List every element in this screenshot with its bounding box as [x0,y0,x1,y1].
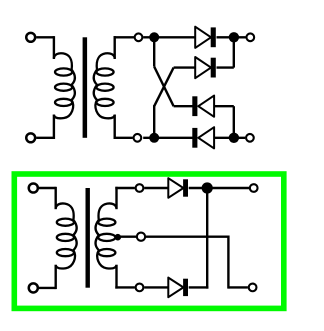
terminal J2 (primary bottom, top circuit) [26,133,35,142]
wire to output- terminal [228,286,248,288]
wire primary coil bottom corner [55,265,57,289]
wire D1 to output+ [217,36,246,38]
wire secondary bottom corner [115,265,117,289]
transformer T1 primary winding [54,53,75,118]
wire corner to J4 [39,287,56,289]
wire corner to J2 [36,137,54,139]
wire center tap down [227,236,229,289]
terminal output+ (top circuit) [246,33,254,41]
transformer T2 core [86,188,90,288]
wire J3 to corner [39,187,56,189]
diode D6 [168,278,188,298]
terminal J1 (primary top, top circuit) [26,33,35,42]
wire secondary bottom to circle [114,137,133,139]
wire center tap run right [146,235,229,237]
terminal secondary top (open circle) [135,33,143,41]
terminal output- (top circuit) [246,134,254,142]
terminal J3 (primary top, bottom circuit) [29,183,38,192]
center tap node [115,234,122,241]
terminal secondary bottom (bottom circuit) [136,284,144,292]
wire crossover diagonal B [154,68,173,107]
wire D5 to output+ [189,187,249,189]
wire to diode D2 [174,66,196,68]
node D (junction dot bottom-right) [229,133,239,143]
wire secondary top to circle [115,187,135,189]
wire secondary bottom corner [113,115,115,140]
wire corner down to primary coil top [53,36,55,59]
green selection frame [14,174,284,308]
wire crossover diagonal A [154,67,173,107]
wire node E down [206,188,208,289]
terminal secondary top (bottom circuit) [136,184,144,192]
diode D4 [192,127,214,148]
terminal secondary bottom (open circle) [134,134,142,142]
wire node B to diode D4 bar [143,137,193,139]
diode D5 [168,178,188,198]
wire secondary bottom to circle [115,286,135,288]
wire D3 right [214,105,234,107]
wire node A to diode D1 [143,36,195,38]
wire D4 to output- [214,137,245,139]
transformer T2 secondary winding (center tapped) [95,203,116,268]
wire secondary top to circle [114,36,135,38]
node C (junction dot top-right) [229,32,239,42]
node E (cathode junction dot) [202,182,213,193]
wire D3 down to node D [233,106,235,138]
diode D2 [195,57,216,78]
wire corner down to primary coil [55,187,57,209]
wire primary coil bottom to corner [53,115,55,140]
diode D3 [192,96,214,117]
terminal output+ (bottom circuit) [250,184,258,192]
wire D2 up to node C [233,40,235,68]
wire J1 to corner [36,36,54,38]
node A (junction dot top-left) [149,32,159,42]
wire to diode D3 bar [174,105,193,107]
node B (junction dot bottom-left) [149,133,159,143]
terminal output- (bottom circuit) [249,284,257,292]
wire node A down [153,37,155,66]
wire secondary top corner [113,36,115,59]
wire circle to diode D6 [144,286,168,288]
terminal center tap (open circle) [137,233,145,241]
wire D6 to node E vertical [189,286,209,288]
wire D2 right [217,66,234,68]
transformer T1 core [83,37,88,138]
transformer T2 primary winding [56,203,77,268]
wire center tap to circle [118,235,136,237]
terminal J4 (primary bottom, bottom circuit) [29,283,38,292]
diode D1 [195,27,216,48]
wire circle to diode D5 [144,187,168,189]
transformer T1 secondary winding [94,53,115,118]
wire secondary top corner [115,187,117,209]
wire node B up [153,105,155,138]
